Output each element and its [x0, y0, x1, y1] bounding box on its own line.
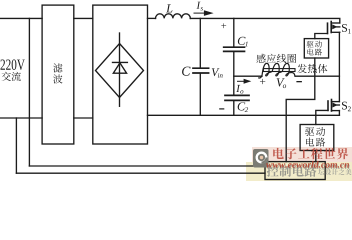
wire junction to coil [234, 75, 262, 77]
watermark url [266, 163, 272, 168]
wire S2 gate lead [316, 110, 328, 124]
wire AC bottom branch down to control rail [15, 118, 17, 173]
current arrow Io [237, 79, 251, 84]
filter block box [42, 5, 74, 144]
wire AC live top [0, 17, 42, 19]
wire coil to midpoint [296, 75, 340, 77]
label switch S2 [342, 102, 347, 110]
drive circuit box 1 for S1 [304, 39, 328, 58]
label drive circuit 1 [307, 41, 314, 48]
wire driver1 to control circuit [286, 58, 315, 162]
diode cathode bar [113, 61, 128, 63]
label voltage Vin [212, 68, 220, 76]
watermark url ghost [267, 164, 273, 169]
drive circuit box 2 for S2 [300, 125, 334, 151]
label inductor L [166, 4, 172, 12]
watermark logo [253, 149, 269, 168]
control circuit box [265, 162, 325, 180]
label heater body [298, 64, 307, 73]
wire bottom rail [148, 114, 340, 116]
current arrow Is [194, 10, 214, 16]
wire S1 gate lead [315, 34, 328, 39]
wire AC neutral bottom [0, 117, 42, 119]
label drive circuit 2 [305, 127, 314, 136]
label current Io [236, 85, 240, 92]
label 220V AC source [0, 59, 4, 69]
wire top rail to S1 [190, 18, 339, 23]
wire filter to rectifier bottom [74, 117, 93, 119]
diode triangle [113, 63, 126, 73]
watermark small slogan [318, 169, 324, 175]
heater rod of induction coil [263, 69, 295, 72]
label capacitor C2 [238, 102, 246, 110]
label voltage Vo [277, 78, 285, 86]
capacitor C1 [233, 18, 235, 46]
watermark title [273, 148, 284, 159]
bridge rectifier block box [93, 5, 148, 144]
node A wire C1 to C2 junction [233, 52, 235, 94]
watermark background [252, 147, 352, 162]
induction coil spiral [259, 63, 295, 78]
label filter [53, 63, 62, 72]
wire driver2 to control box [315, 151, 317, 162]
wire control rail upper [29, 165, 265, 167]
watermark channel name [267, 165, 279, 177]
diode axis wire [119, 33, 121, 106]
wire control rail lower [16, 172, 265, 174]
capacitor C2 [225, 94, 249, 96]
wire filter to rectifier top [74, 17, 93, 19]
capacitor C [199, 18, 201, 67]
label current Is [196, 2, 200, 9]
transistor S2 [332, 101, 340, 103]
wire rectifier to inductor [148, 17, 156, 19]
label plus of C1 [221, 23, 226, 28]
bridge rectifier diamond [96, 44, 144, 98]
label minus of C2 [219, 108, 224, 109]
transistor S1 [331, 22, 340, 24]
label switch S1 [342, 24, 347, 32]
wire midpoint vertical S1 source to S2 drain [338, 32, 340, 101]
wire AC top branch down to control rail [28, 18, 30, 166]
label capacitor C1 [238, 37, 246, 45]
label plus of Vo [260, 79, 265, 84]
label minus of Vo [296, 81, 302, 82]
inductor L humps [156, 14, 191, 19]
label capacitor C [182, 67, 190, 76]
label induction coil [257, 54, 266, 63]
